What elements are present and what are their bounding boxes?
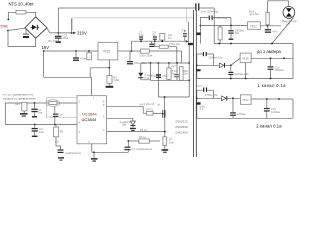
svg-text:400в: 400в [62,36,68,40]
capacitor Cs [176,63,178,75]
resistor input [88,51,90,53]
node loop d [34,124,36,126]
wire fan top [268,1,289,13]
capacitor C1 bulk [57,33,59,36]
svg-text:2SA2213: 2SA2213 [175,119,188,123]
inductor L1 choke [219,26,221,28]
transformer T1 core [194,10,197,157]
capacitor C10 mid [232,98,234,112]
resistor R5 [108,68,110,76]
wire ch1 out [251,57,293,59]
svg-text:защита от превышения: защита от превышения [3,97,36,101]
wire 16V drop [43,51,45,77]
zener VD2 [140,63,142,73]
svg-text:7812: 7812 [250,25,257,29]
svg-text:до 1 ампера: до 1 ампера [257,49,282,54]
capacitor C8 ch2 snub [197,90,203,98]
capacitor C2 [75,51,77,57]
capacitor C15 [34,125,36,128]
pin numbers U1 [79,97,106,144]
svg-text:310V: 310V [77,30,87,35]
resistor Rs2 [179,67,183,81]
node fan res [267,25,269,27]
wire left loop bottom [5,124,77,126]
ground C16 [58,157,64,158]
node snubber a [150,62,152,64]
node drain top [188,62,190,64]
ground VD6 [130,128,136,129]
node sec2 top [196,64,198,66]
wire snubber left [150,63,152,80]
svg-text:220В: 220В [0,24,8,29]
wire 310V to primary [186,8,188,22]
svg-text:1000мк: 1000мк [275,68,285,72]
wire U1 vref pin [107,117,133,119]
resistor Ra2 [155,41,160,47]
capacitor Y1 [195,3,196,10]
wire ch1 return rail [197,78,293,80]
transformer sec3 winding [196,98,198,118]
ic U1 UC3844 box [77,96,107,144]
ground R1 [23,111,25,113]
svg-text:R3: R3 [60,129,64,133]
node return b [270,78,272,80]
node gate [162,113,164,115]
wire riser to aux rail [131,41,133,51]
node ch2 mid [232,97,234,99]
fan M1 [283,6,295,18]
diode inside bridge [32,25,37,30]
wire 12V rail [200,25,247,27]
svg-text:16V: 16V [42,45,50,50]
node slope left [127,140,129,142]
capacitor snub sec1 [200,18,208,26]
wire snubber top rail [141,62,189,64]
zener VD6 [132,118,134,121]
svg-text:С4,7: С4,7 [197,84,203,88]
svg-text:1ом: 1ом [169,140,174,144]
wire bottom gnd rail [92,151,129,153]
wire mains to bridge left [8,28,25,30]
arrow aux winding [186,40,189,43]
capacitor C14 [54,107,56,114]
ground 7815 [108,83,110,85]
wire U1 sense pin [107,131,165,133]
node ch1 out a [270,57,272,59]
transformer sec1 winding [199,26,201,44]
node riser [71,32,73,34]
svg-text:R6 51: R6 51 [146,108,154,112]
wire 7815 gnd branch [90,60,109,77]
svg-text:1000мк: 1000мк [271,110,281,114]
node mains terminal 1 [7,19,9,21]
node gnd pin [93,151,95,153]
wire 7815 output [118,50,132,52]
wire left loop side [4,103,6,125]
capacitor C5b shield [184,30,186,41]
node R input [88,50,90,52]
node aux a [140,40,142,42]
svg-text:до 2,5вт: до 2,5вт [249,12,260,16]
svg-text:NTS 20..40вт: NTS 20..40вт [9,1,34,6]
wire source [164,118,166,137]
resistor R7 source [163,137,167,146]
svg-text:(10к): (10к) [113,78,119,82]
wire snubber bottom rail [151,79,190,81]
arrow 310V [73,32,76,35]
resistor Rs1 [168,63,170,68]
wire left loop top [5,102,77,104]
transformer sec2 winding [196,65,198,78]
node cap 12V [230,25,232,27]
resistor R14 [266,12,269,24]
bridge rectifier VD1 [25,17,47,38]
node gnd rail c [271,43,273,45]
inductor L2 on 16V rail [132,50,141,52]
wire sec gnd rail [214,43,293,45]
resistor R1 [22,102,27,111]
node source sense [164,131,166,133]
svg-text:1мк 100в=1мк: 1мк 100в=1мк [201,9,219,13]
wire 16V rail [44,50,98,52]
capacitor C9 ch2 out [266,99,268,108]
wire 310V risers [58,8,71,33]
wire primary bottom to drain [188,45,190,97]
svg-text:7812: 7812 [242,98,249,102]
wire mains L to fuse [8,12,35,19]
svg-text:1 канал 0.1а: 1 канал 0.1а [258,83,287,88]
node loop a [23,102,25,104]
node gnd rail a [218,43,220,45]
node drain [164,96,166,98]
node aux b [154,40,156,42]
diode VD4 ch1 [220,63,224,68]
wire drain rail [158,96,189,98]
node drain mid [188,79,190,81]
svg-text:С9: С9 [55,140,59,144]
node sec1 top [200,25,202,27]
node mains terminal 2 [7,30,9,32]
capacitor C3b below rail [151,41,153,43]
node ch1 diag [230,64,232,66]
node ch1 out b [283,57,285,59]
node gnd rail b [230,43,232,45]
wire ch2 from winding [197,97,241,99]
node 16V left [43,50,45,52]
node 7815 out [131,50,133,52]
node loop e [54,124,56,126]
wire U4 gnd [245,63,247,79]
capacitor C4 aux [154,40,156,41]
svg-text:дел: дел [15,103,20,106]
svg-text:1н: 1н [152,33,155,37]
svg-text:4,7мк 250в: 4,7мк 250в [214,16,228,20]
wire mains N to bridge bottom [8,31,36,47]
svg-text:R6 1к: R6 1к [139,135,147,139]
resistor R6 gate [143,112,146,114]
node snubber c [176,62,178,64]
node snubber b [168,62,170,64]
svg-text:18в: 18в [122,122,127,126]
svg-text:2200мк: 2200мк [237,112,247,116]
svg-text:1н: 1н [59,113,62,117]
capacitor C7b ch1 [230,65,232,71]
wire fan diagonal [272,18,294,44]
svg-text:7815: 7815 [103,49,111,53]
capacitor C13 [34,103,36,108]
node sec3 top [196,97,198,99]
diode VD5 ch2 [222,96,227,101]
wire ch2 out [251,98,293,100]
regulator U3 7812 [248,22,261,30]
regulator U5 7812 [241,95,252,105]
resistor Ra3 vertical [160,33,165,40]
capacitor clamp C18 [156,74,161,76]
node loop b [34,102,36,104]
capacitor C3 aux [140,40,142,41]
wire ch2 return rail [197,117,293,119]
svg-text:2200мк 16в: 2200мк 16в [234,72,249,76]
capacitor C7 ch1 out [270,58,272,66]
svg-text:470мк 25в: 470мк 25в [205,93,218,97]
node snubber clamp [158,62,160,64]
fuse F1 [16,10,26,14]
svg-text:100н 250в: 100н 250в [140,53,153,57]
wire ch1 diag to reg [231,58,240,65]
wire 310V top rail [58,7,195,9]
node 310V [57,32,59,34]
wire ch1 right edge [292,44,294,79]
wire ch2 right edge [292,99,294,118]
node ch2 out b [278,98,280,100]
svg-text:2SK1460: 2SK1460 [175,131,188,135]
svg-text:47м: 47м [139,33,144,37]
svg-text:2SK2698: 2SK2698 [175,125,188,129]
capacitor X2 at bridge [25,28,27,34]
capacitor C12a [230,26,232,31]
svg-text:16в: 16в [235,31,240,35]
regulator U4 7815 [240,53,251,63]
capacitor C6 ch1 snub [197,54,203,65]
wire Y cap to secondary gnd [200,8,215,44]
svg-text:47н: 47н [182,29,187,33]
mosfet Q1 [164,97,166,110]
node aux c [161,40,163,42]
svg-text:470м 2вт: 470м 2вт [169,42,181,46]
svg-text:2 канал 0.1а: 2 канал 0.1а [256,124,282,129]
regulator U2 7815 [98,42,118,60]
wire aux 16V rail [132,40,187,42]
svg-text:R5 10: R5 10 [140,128,148,132]
wire bridge out to 310V node [47,29,73,33]
wire ch1 from winding [197,64,220,66]
svg-text:470: 470 [162,74,167,78]
svg-text:47м: 47м [272,29,277,33]
wire VCC rail [44,77,91,95]
node cap C2 [75,50,77,52]
inductor circled [46,100,60,107]
wire 7812 out [261,25,282,27]
svg-text:подбирается: подбирается [65,151,81,155]
svg-text:на 3 (без R): на 3 (без R) [140,102,155,106]
ground bottom [93,152,95,158]
wire U1 out pin [107,107,144,114]
box feedback group [46,98,77,118]
svg-text:UC3844: UC3844 [82,117,97,122]
ground R7 [162,149,169,151]
resistor R8 slope [139,139,150,143]
wire U1 gnd pin [91,144,93,153]
node C7b [230,78,232,80]
svg-text:0,1 подбирается: 0,1 подбирается [132,147,153,151]
capacitor C17 [127,141,129,146]
wire slope comp [128,140,139,142]
wire shield box [73,18,194,30]
svg-text:4н7: 4н7 [171,64,176,68]
node return a [245,78,247,80]
svg-text:7815: 7815 [242,57,249,61]
node loop c [54,102,56,104]
svg-text:0,3: 0,3 [200,107,204,111]
transformer primary winding bar [188,43,193,45]
wire clamp to drain [157,63,159,97]
svg-text:+3,3м: +3,3м [149,74,156,78]
resistor R2 [55,125,57,128]
capacitor C5 100n [129,51,131,61]
capacitor C12b [267,26,269,29]
node ch2 out a [266,98,268,100]
node 7815 gnd [108,67,110,69]
svg-text:1000мк 16в: 1000мк 16в [208,56,223,60]
capacitor C16 [56,137,61,149]
